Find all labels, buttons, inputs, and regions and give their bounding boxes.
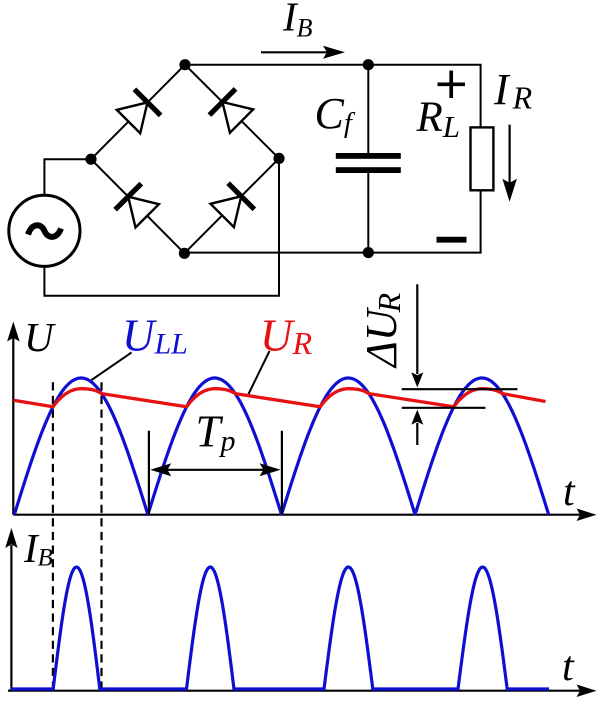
diode D4 (- rail to right node) <box>211 183 255 227</box>
diode D2 (right node to + rail) <box>209 89 253 133</box>
Tp period marker <box>149 431 282 514</box>
label UR <box>249 311 313 395</box>
arrow IR <box>502 125 517 202</box>
IB plot x axis <box>8 685 597 698</box>
wire top rail <box>185 65 481 128</box>
node capacitor bottom junction <box>363 247 374 258</box>
label ULL <box>92 311 188 381</box>
dashed guide line right <box>100 382 102 688</box>
U plot y axis <box>7 322 20 515</box>
wire bottom rail <box>184 190 480 252</box>
node left junction <box>85 154 96 165</box>
wire from source top to left bridge node <box>44 159 91 195</box>
label minus terminal <box>437 237 467 243</box>
svg-text:t: t <box>562 644 575 690</box>
arrow IB <box>261 46 345 59</box>
curve IB pulses <box>11 567 549 689</box>
label plus terminal <box>438 71 466 98</box>
dashed guide line left <box>52 382 54 688</box>
node right junction <box>273 153 284 164</box>
delta UR ripple marker <box>402 284 518 445</box>
wire capacitor branch <box>367 65 369 153</box>
wire bridge arm left-top <box>91 65 185 160</box>
node capacitor top junction <box>363 59 374 70</box>
curve UR ripple <box>14 389 546 407</box>
diode D1 (left node to + rail) <box>117 89 161 133</box>
AC source G1 <box>9 195 80 266</box>
wire bridge arm right-top <box>185 65 279 159</box>
diode D3 (- rail to left node) <box>115 184 159 228</box>
IB plot y axis <box>5 528 17 691</box>
resistor RL <box>471 127 494 190</box>
capacitor Cf plates <box>336 153 401 173</box>
wire from source bottom right and up to right bridge node <box>44 158 279 295</box>
wire bridge arm left-bottom <box>91 159 184 253</box>
U plot x axis <box>13 509 596 522</box>
node bottom junction <box>179 248 190 259</box>
node top junction <box>179 59 190 70</box>
curve ULL rectified sine <box>14 378 548 515</box>
wire bridge arm right-bottom <box>184 158 279 253</box>
svg-text:U: U <box>24 314 56 360</box>
svg-text:t: t <box>563 469 576 515</box>
